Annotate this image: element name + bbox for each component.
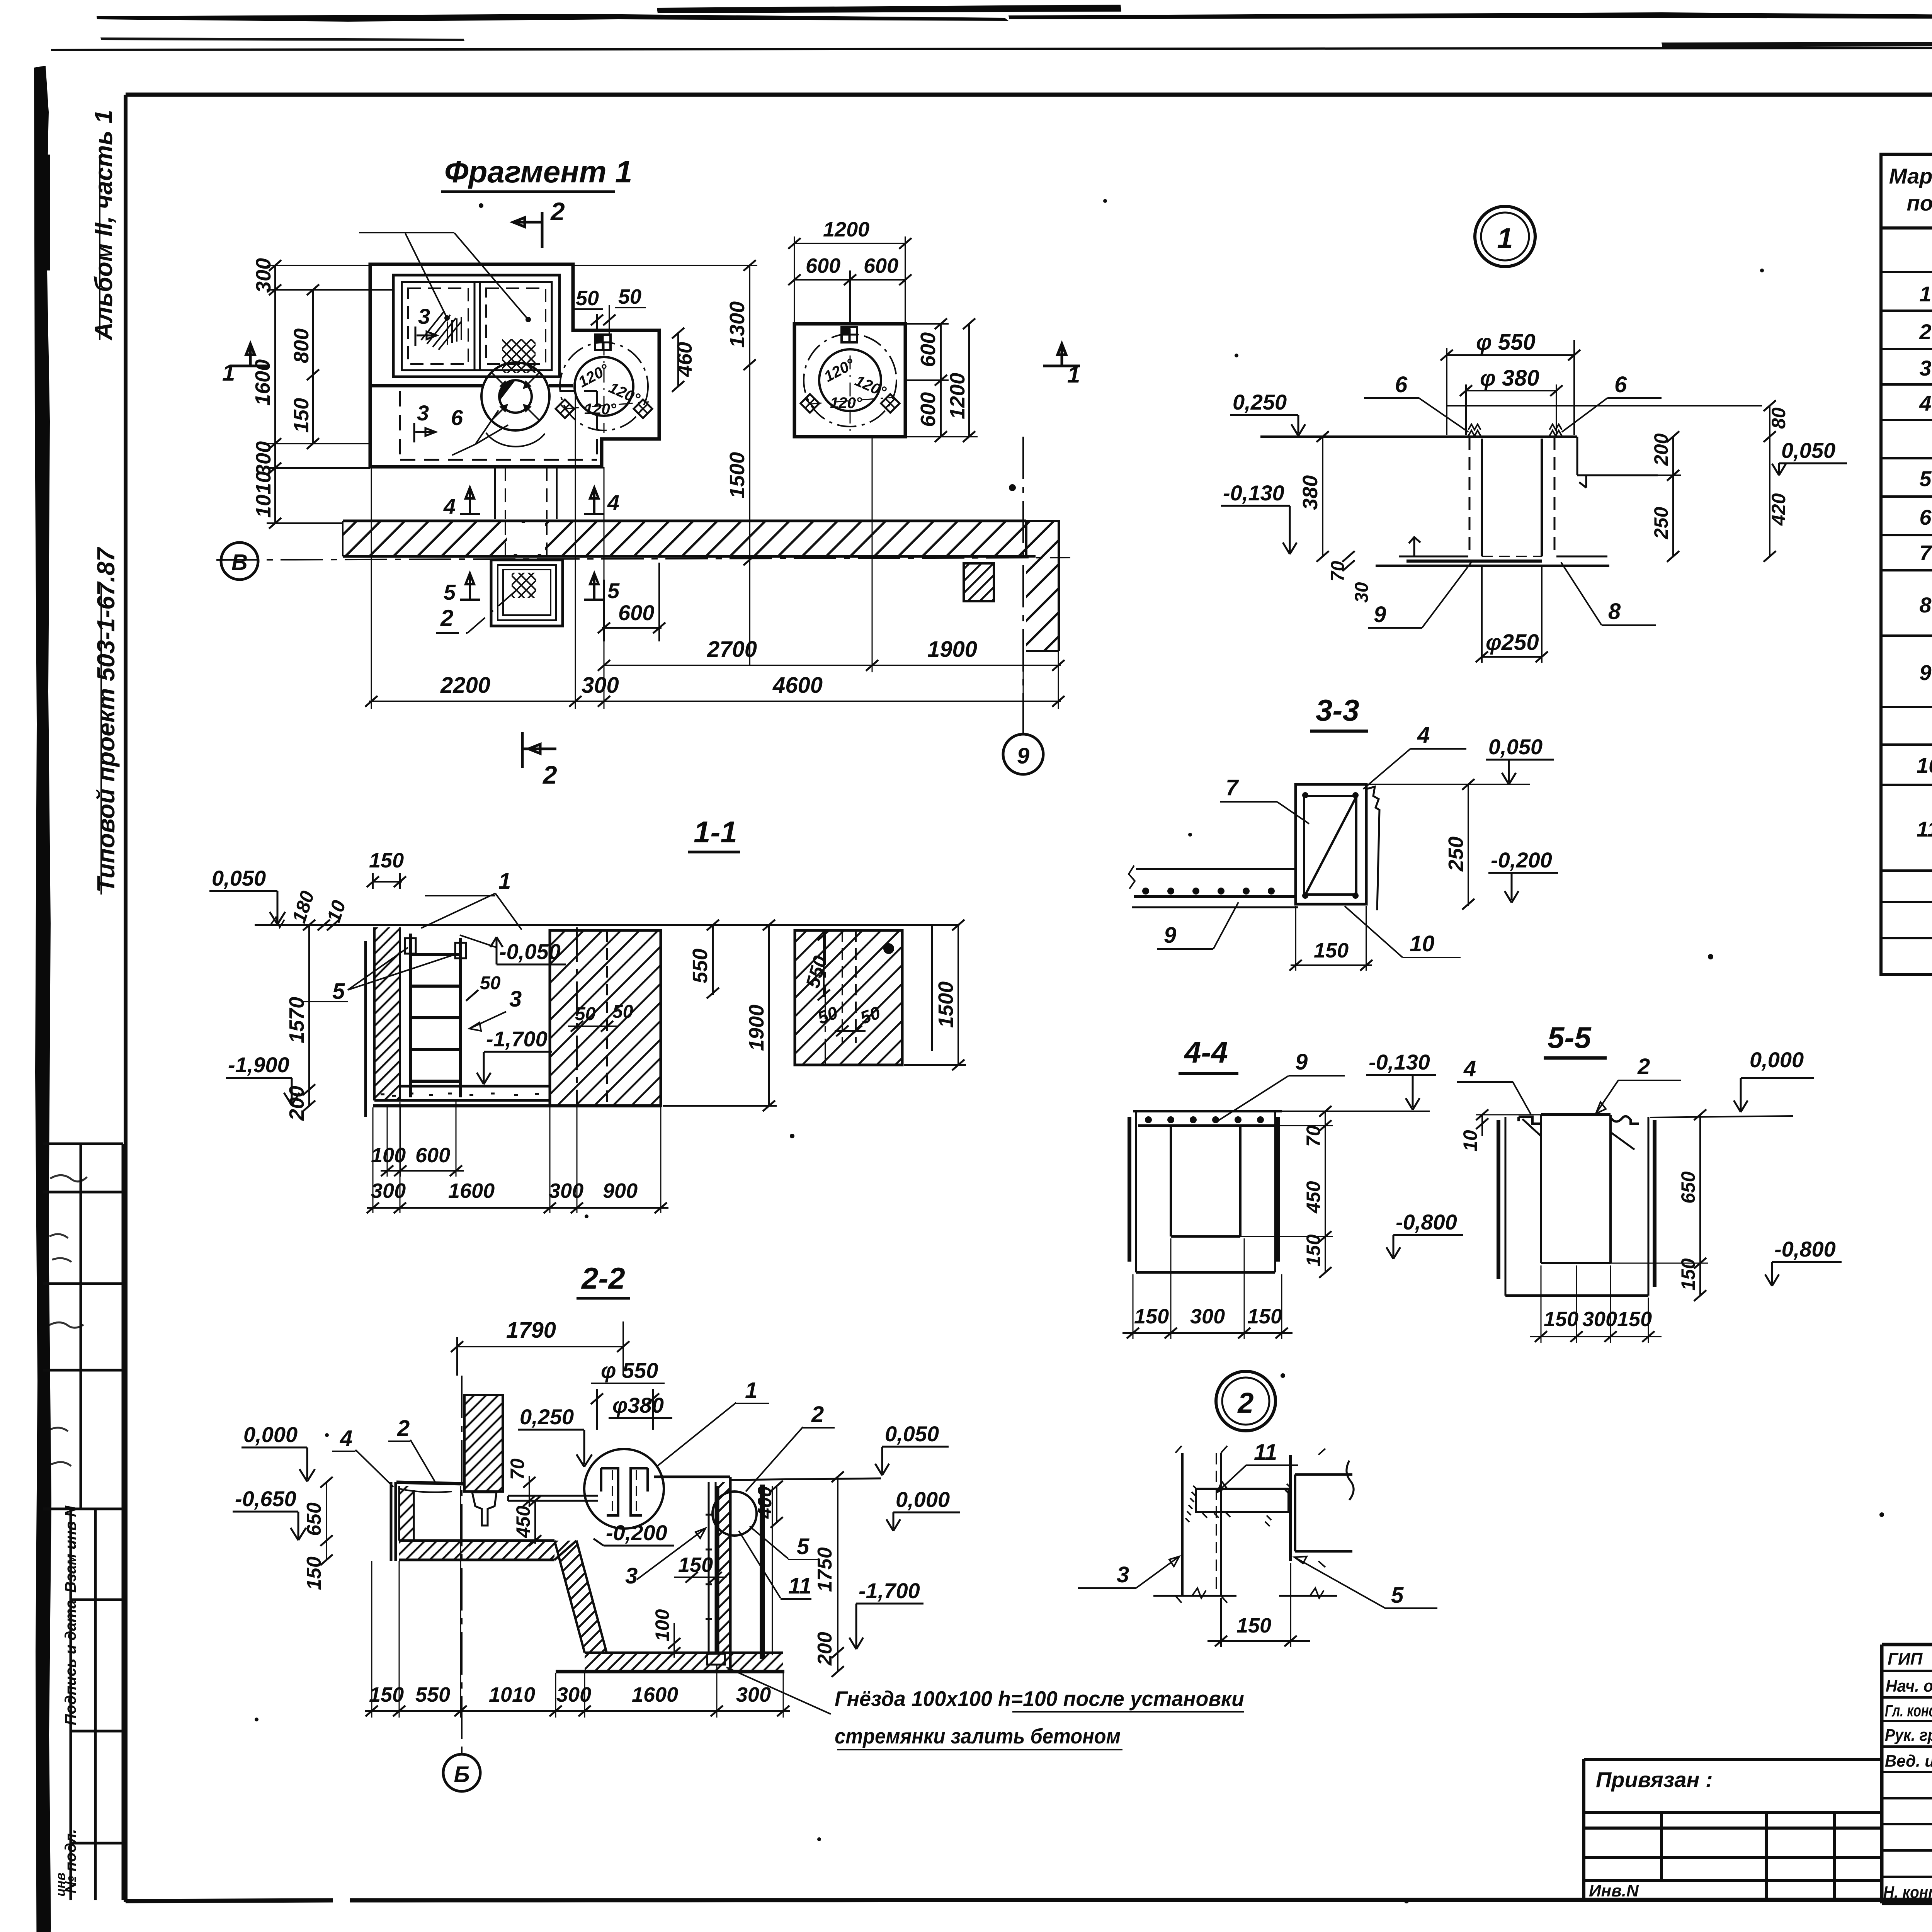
svg-text:9: 9 [1919, 660, 1931, 685]
svg-text:150: 150 [1617, 1308, 1652, 1331]
svg-text:6: 6 [451, 405, 463, 430]
svg-text:-1,900: -1,900 [228, 1053, 289, 1077]
svg-text:5: 5 [797, 1534, 810, 1559]
svg-text:250: 250 [1650, 507, 1672, 539]
svg-text:Нач. отд: Нач. отд [1886, 1677, 1932, 1696]
hatch patch left panel [421, 311, 461, 350]
5-5 bottom dims [1530, 1336, 1662, 1337]
dims right 1750 200 [837, 1477, 838, 1672]
rail profile [472, 1492, 497, 1526]
svg-text:-0,800: -0,800 [1396, 1210, 1457, 1234]
svg-text:Типовой проект 503-1-67.87: Типовой проект 503-1-67.87 [92, 546, 120, 893]
svg-text:-0,800: -0,800 [1774, 1237, 1836, 1261]
lower chamber dashed [400, 391, 597, 460]
extension lines [371, 377, 1058, 709]
svg-text:2: 2 [811, 1402, 824, 1427]
svg-text:-0,650: -0,650 [235, 1486, 296, 1511]
svg-text:11: 11 [788, 1573, 811, 1599]
svg-text:450: 450 [1303, 1181, 1324, 1214]
svg-text:3: 3 [417, 401, 429, 425]
svg-text:инв: инв [53, 1872, 68, 1896]
dims 2700 1900 [604, 665, 1061, 666]
section marks 5 [460, 573, 480, 600]
svg-text:600: 600 [917, 392, 940, 427]
axis 9 [1022, 437, 1024, 734]
svg-text:11: 11 [1254, 1440, 1277, 1465]
svg-text:9: 9 [1295, 1049, 1308, 1075]
svg-text:6: 6 [1614, 372, 1627, 397]
svg-text:1900: 1900 [927, 637, 977, 662]
svg-text:φ380: φ380 [612, 1393, 664, 1417]
svg-text:80: 80 [1768, 407, 1789, 429]
diagonal step [554, 1541, 607, 1653]
svg-text:200: 200 [814, 1632, 836, 1666]
svg-text:550: 550 [689, 949, 712, 983]
svg-text:300: 300 [582, 673, 619, 698]
svg-text:0,050: 0,050 [885, 1422, 939, 1446]
svg-text:6: 6 [1919, 505, 1932, 529]
svg-text:400: 400 [754, 1486, 776, 1519]
svg-text:9: 9 [1164, 923, 1176, 948]
svg-text:0,000: 0,000 [243, 1422, 298, 1447]
svg-text:1900: 1900 [745, 1005, 768, 1051]
svg-text:150: 150 [303, 1556, 325, 1590]
svg-text:1: 1 [498, 869, 511, 894]
svg-text:φ 550: φ 550 [601, 1358, 658, 1383]
svg-text:-1,700: -1,700 [486, 1027, 548, 1051]
svg-text:-0,130: -0,130 [1369, 1050, 1430, 1074]
svg-text:4-4: 4-4 [1184, 1035, 1228, 1069]
detail 1 marker circle [1475, 206, 1535, 267]
table header text [1889, 164, 1932, 217]
svg-text:200: 200 [285, 1086, 308, 1121]
dim 250 [1468, 784, 1469, 906]
svg-text:300: 300 [252, 258, 275, 293]
svg-text:4: 4 [443, 494, 456, 519]
svg-text:5-5: 5-5 [1548, 1020, 1592, 1054]
svg-text:10: 10 [1410, 931, 1435, 956]
bar item 11 [1196, 1489, 1289, 1512]
thin top sheet line [51, 47, 1932, 50]
svg-text:Вед. инж: Вед. инж [1885, 1752, 1932, 1770]
svg-text:1600: 1600 [632, 1683, 678, 1706]
svg-text:150: 150 [1314, 939, 1349, 962]
svg-text:В: В [231, 550, 248, 575]
lower slab [399, 1541, 554, 1560]
svg-text:150: 150 [1134, 1305, 1169, 1328]
svg-text:0,000: 0,000 [896, 1487, 950, 1512]
svg-text:2200: 2200 [440, 673, 490, 698]
dims 70 450 150 [1325, 1111, 1326, 1272]
svg-text:0,050: 0,050 [1488, 735, 1543, 759]
4-4 bottom dims [1122, 1332, 1293, 1334]
svg-text:3: 3 [1919, 356, 1931, 380]
svg-text:2700: 2700 [707, 637, 757, 662]
svg-text:Подпись и дата: Подпись и дата [62, 1600, 79, 1725]
svg-text:120°: 120° [584, 401, 617, 418]
right plate [1289, 1455, 1292, 1561]
svg-text:2: 2 [550, 197, 565, 226]
svg-text:4: 4 [1919, 391, 1931, 415]
bottom slab lines [1399, 556, 1607, 558]
dims 2200 300 4600 [369, 701, 1061, 702]
svg-text:300: 300 [1582, 1308, 1617, 1331]
floor top line [1260, 435, 1577, 438]
dim 1500 right [904, 925, 966, 1065]
ladder стремянка [410, 934, 461, 1097]
faint scribbles in stamp boxes [49, 1175, 87, 1466]
standalone foundation square [794, 324, 905, 437]
dim 150 [1291, 906, 1372, 971]
svg-text:Б: Б [454, 1762, 469, 1787]
svg-text:10: 10 [1917, 753, 1932, 777]
bottom dim chain upper [381, 1170, 464, 1172]
specification table grid [1881, 154, 1932, 975]
title block grid [1882, 1645, 1932, 1903]
leader lines to panels [359, 233, 528, 320]
svg-text:0,250: 0,250 [520, 1405, 574, 1429]
svg-text:1500: 1500 [934, 981, 957, 1028]
svg-text:150: 150 [1247, 1305, 1282, 1328]
dims 650 150 left [326, 1482, 327, 1560]
svg-text:5: 5 [1919, 466, 1932, 491]
slab left [1136, 868, 1296, 870]
svg-text:900: 900 [603, 1179, 638, 1202]
svg-text:ГИП: ГИП [1888, 1650, 1923, 1668]
polosa bar [508, 1496, 598, 1501]
dims 70 450 [523, 1477, 536, 1488]
svg-text:2: 2 [1237, 1387, 1253, 1419]
pit floor and slab [400, 1085, 550, 1088]
dim 150 top [373, 873, 402, 889]
svg-text:150: 150 [369, 849, 404, 872]
svg-text:250: 250 [1444, 837, 1468, 872]
detached block [795, 930, 902, 1065]
pit below wall [491, 560, 563, 626]
460 dim [677, 333, 679, 386]
svg-text:-0,130: -0,130 [1223, 481, 1284, 505]
sleeve verticals [1469, 437, 1554, 556]
svg-text:5: 5 [607, 578, 620, 603]
svg-text:5: 5 [1391, 1583, 1404, 1608]
svg-text:φ 550: φ 550 [1476, 330, 1536, 355]
5-5 body [1541, 1113, 1611, 1116]
panel steel sheet [760, 1485, 765, 1659]
svg-text:600: 600 [618, 600, 654, 625]
svg-text:Привязан :: Привязан : [1596, 1767, 1713, 1792]
svg-text:460: 460 [673, 342, 696, 377]
svg-text:100: 100 [651, 1609, 673, 1641]
svg-text:1200: 1200 [946, 373, 969, 419]
svg-text:70: 70 [1303, 1125, 1324, 1147]
section marks 1 left/right [232, 344, 269, 366]
svg-text:6: 6 [1395, 372, 1408, 397]
svg-text:4: 4 [1463, 1056, 1476, 1081]
section mark 3 in left panel [415, 327, 437, 346]
svg-text:Инв.N: Инв.N [1589, 1881, 1639, 1900]
svg-text:Рук. груп.: Рук. груп. [1885, 1726, 1932, 1745]
trench below plan [505, 467, 547, 519]
svg-text:420: 420 [1768, 493, 1789, 526]
svg-text:Взам инв N: Взам инв N [62, 1505, 79, 1593]
detail 2 body [1182, 1453, 1221, 1596]
ladder in pit [709, 1482, 716, 1654]
svg-text:-0,200: -0,200 [1491, 848, 1552, 872]
svg-text:50: 50 [618, 285, 641, 308]
left stamp boxes lower [71, 1509, 123, 1900]
right wall [718, 1482, 730, 1672]
svg-text:0,250: 0,250 [1233, 390, 1287, 414]
svg-text:3: 3 [418, 304, 430, 328]
svg-text:8: 8 [1919, 593, 1932, 617]
right step [1577, 437, 1658, 488]
anchor coils [1468, 424, 1481, 436]
svg-text:-0,050: -0,050 [499, 939, 561, 964]
svg-text:Н. контр.: Н. контр. [1883, 1883, 1932, 1902]
partition thick line [370, 384, 573, 388]
svg-text:0,050: 0,050 [1781, 438, 1835, 463]
svg-text:380: 380 [1299, 475, 1322, 510]
square R4 dims [794, 236, 905, 324]
dim 550 right of wall [712, 925, 714, 995]
crosshatch patch right panel [502, 339, 536, 373]
svg-text:4600: 4600 [772, 673, 823, 698]
panel box double frame [393, 275, 560, 377]
dim 1900 [663, 925, 777, 1106]
svg-text:11: 11 [1917, 817, 1932, 841]
svg-text:2: 2 [542, 760, 557, 789]
svg-text:Гнёзда 100х100 h=100 посл: Гнёзда 100х100 h=100 после установки [835, 1687, 1244, 1711]
top surface right [654, 1476, 730, 1478]
svg-text:600: 600 [917, 332, 940, 367]
svg-text:7: 7 [1919, 541, 1932, 565]
bolt circle C2 [481, 362, 549, 430]
svg-text:9: 9 [1374, 602, 1386, 627]
svg-text:поз: поз [1907, 191, 1932, 215]
section marks 4 [460, 488, 480, 514]
svg-text:1300: 1300 [726, 301, 749, 348]
bottom dim chain lower [367, 1207, 668, 1209]
svg-text:1-1: 1-1 [694, 815, 737, 849]
svg-text:3: 3 [625, 1563, 638, 1588]
dim 10 [1481, 1115, 1483, 1136]
svg-text:300: 300 [736, 1683, 771, 1706]
signature column texts [1883, 1650, 1932, 1902]
svg-text:1010: 1010 [489, 1683, 535, 1706]
trench gap in wall band [507, 523, 545, 554]
svg-text:1200: 1200 [823, 218, 869, 241]
right wall block hatched [550, 930, 661, 1106]
svg-text:7: 7 [1226, 775, 1239, 800]
svg-text:0,050: 0,050 [212, 866, 266, 890]
scan speckles [255, 199, 1932, 1903]
svg-text:300: 300 [556, 1683, 591, 1706]
svg-text:50: 50 [575, 1004, 596, 1024]
svg-text:650: 650 [303, 1502, 325, 1536]
svg-text:70: 70 [507, 1458, 528, 1480]
svg-text:30: 30 [1352, 582, 1372, 603]
svg-text:50: 50 [480, 973, 501, 993]
privyazan table [1584, 1759, 1882, 1902]
svg-text:1010: 1010 [252, 471, 275, 518]
svg-text:φ 380: φ 380 [1480, 366, 1539, 391]
svg-text:300: 300 [371, 1179, 406, 1202]
svg-text:1: 1 [1067, 362, 1080, 388]
torn top sheet edge [97, 14, 1009, 22]
svg-text:2: 2 [440, 605, 453, 631]
svg-text:800: 800 [290, 328, 313, 363]
detail 2 marker circle [1216, 1371, 1276, 1431]
svg-text:450: 450 [512, 1505, 534, 1538]
svg-text:1: 1 [1497, 222, 1513, 254]
rail column hatched [464, 1395, 503, 1492]
svg-text:-1,700: -1,700 [859, 1578, 920, 1603]
dim 400 [776, 1486, 777, 1522]
detail circle 2 small [713, 1492, 757, 1536]
dim 150 [1207, 1563, 1310, 1647]
svg-text:1: 1 [745, 1378, 757, 1403]
svg-text:150: 150 [1303, 1234, 1324, 1267]
dim 100 [673, 1623, 675, 1658]
svg-text:300: 300 [1190, 1305, 1225, 1328]
detached block dims [823, 930, 825, 997]
bottom dim 600 [604, 563, 659, 641]
bottom lines [1153, 1595, 1337, 1597]
right dims [1580, 437, 1681, 556]
svg-text:10: 10 [1459, 1130, 1481, 1151]
svg-text:стремянки залить бетоном: стремянки залить бетоном [835, 1724, 1121, 1748]
svg-text:150: 150 [1544, 1308, 1578, 1331]
svg-text:2: 2 [397, 1416, 410, 1441]
svg-text:5: 5 [332, 979, 345, 1004]
svg-text:2: 2 [1637, 1054, 1650, 1079]
left wall strip [399, 1486, 414, 1541]
svg-text:550: 550 [415, 1683, 450, 1706]
table body [1917, 243, 1932, 972]
wall band hatched [343, 521, 1026, 556]
small wall block [964, 563, 994, 601]
svg-text:8: 8 [1608, 599, 1621, 624]
svg-text:Гл. констр.: Гл. констр. [1885, 1701, 1932, 1720]
svg-text:Альбом II, часть 1: Альбом II, часть 1 [90, 110, 117, 341]
svg-text:150: 150 [1236, 1614, 1271, 1637]
svg-text:4: 4 [607, 490, 619, 515]
svg-text:0,000: 0,000 [1750, 1048, 1804, 1072]
dim 1790 [457, 1321, 623, 1376]
left ledge [396, 1482, 463, 1484]
torn left sheet edge [34, 66, 51, 1932]
dims 650 150 [1699, 1115, 1701, 1296]
svg-text:120°: 120° [830, 395, 862, 412]
svg-text:1570: 1570 [285, 997, 308, 1043]
dims 70 30 [1342, 551, 1355, 562]
panel dashed inners [408, 288, 468, 364]
left stamp boxes upper [43, 1144, 123, 1509]
svg-text:650: 650 [1677, 1171, 1699, 1204]
svg-text:5: 5 [444, 580, 456, 604]
left pit wall hatched [374, 927, 400, 1100]
section mark 3 lower [414, 423, 435, 442]
svg-text:2: 2 [1919, 320, 1931, 344]
svg-text:600: 600 [864, 254, 898, 277]
svg-text:2-2: 2-2 [581, 1261, 625, 1295]
detail circle 1 on 2-2 [584, 1449, 664, 1529]
svg-text:3: 3 [509, 986, 522, 1012]
svg-text:1600: 1600 [448, 1179, 495, 1202]
svg-text:150: 150 [290, 398, 313, 433]
bottom edge [373, 1104, 661, 1107]
axis Б [461, 1376, 463, 1754]
svg-text:-0,200: -0,200 [606, 1520, 667, 1545]
svg-text:φ250: φ250 [1486, 630, 1539, 655]
dim 1570 / 200 [308, 925, 310, 1106]
svg-text:3-3: 3-3 [1316, 693, 1359, 727]
svg-text:600: 600 [806, 254, 840, 277]
svg-text:1790: 1790 [506, 1318, 556, 1343]
svg-text:300: 300 [252, 441, 275, 476]
upstand [1296, 784, 1366, 904]
svg-text:Фрагмент 1: Фрагмент 1 [444, 155, 632, 189]
svg-text:9: 9 [1017, 743, 1029, 769]
svg-text:600: 600 [415, 1144, 450, 1167]
svg-text:70: 70 [1328, 561, 1348, 582]
leader to bolt circle [452, 410, 508, 455]
svg-text:50: 50 [576, 287, 599, 310]
svg-text:300: 300 [549, 1179, 583, 1202]
1300 1500 vertical chain [749, 265, 750, 665]
dim 380 [1322, 437, 1323, 556]
axis B [216, 558, 1070, 560]
inner dim chain [312, 290, 314, 444]
main drawing frame [126, 93, 1932, 97]
attached square with bolt circle [575, 357, 633, 416]
svg-text:3: 3 [1117, 1562, 1129, 1587]
svg-text:1: 1 [222, 360, 235, 386]
wall corner piece [1026, 521, 1059, 651]
left dim chain [274, 265, 276, 523]
section marks 2 top/bottom [513, 212, 542, 248]
svg-text:1: 1 [1919, 282, 1931, 306]
svg-text:4: 4 [340, 1426, 352, 1451]
svg-text:Марка,: Марка, [1889, 164, 1932, 188]
bottom dim chain 2-2 [365, 1710, 790, 1712]
ground line [255, 924, 959, 926]
svg-text:1750: 1750 [814, 1547, 836, 1592]
svg-text:50: 50 [612, 1002, 633, 1022]
svg-text:4: 4 [1417, 723, 1430, 748]
plan outer wall outline [370, 264, 659, 467]
svg-text:1500: 1500 [726, 452, 749, 498]
svg-text:200: 200 [1650, 433, 1672, 466]
bottom slab [585, 1653, 783, 1672]
4-4 body [1133, 1110, 1282, 1112]
